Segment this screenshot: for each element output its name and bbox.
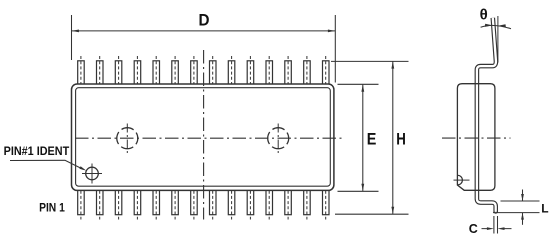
L extension lower bbox=[493, 212, 540, 214]
theta arc arrowhead left bbox=[485, 24, 493, 27]
body inner outline bbox=[76, 88, 331, 187]
side ident tick line bbox=[454, 179, 470, 181]
L arrow line upper bbox=[522, 190, 524, 201]
L arrowhead up bbox=[521, 213, 524, 220]
pin1 leader arrowhead bbox=[79, 166, 86, 170]
hole circle right centerline bbox=[277, 124, 279, 154]
L arrow line lower bbox=[522, 213, 524, 225]
hole circle left centerline bbox=[126, 124, 128, 154]
C arrowhead left bbox=[498, 227, 505, 230]
dimension arrowheads bbox=[72, 30, 395, 215]
E extension top bbox=[338, 83, 379, 85]
side lead inner whitening bbox=[477, 18, 496, 212]
E extension bottom bbox=[338, 190, 379, 192]
hole circle left bbox=[117, 128, 138, 149]
side horizontal centerline bbox=[442, 137, 511, 139]
L extension upper bbox=[501, 200, 540, 202]
E dimension line bbox=[362, 85, 364, 191]
svg-text:θ: θ bbox=[480, 7, 488, 24]
side body outline with chamfer bottom-left bbox=[457, 84, 495, 191]
svg-text:H: H bbox=[396, 129, 406, 148]
D dimension extension line left bbox=[71, 15, 73, 60]
pin1 ident circle bbox=[86, 167, 99, 180]
side pin1 ident semicircle bbox=[458, 175, 463, 185]
D dimension line bbox=[72, 30, 336, 32]
vertical body centerline bbox=[203, 50, 205, 220]
C arrow tails bbox=[482, 228, 512, 230]
pin1 ident cross bbox=[82, 164, 102, 184]
C extension lines bbox=[494, 216, 498, 234]
H arrow top bbox=[391, 61, 394, 68]
side lead outline (Z-bends), dark thick stroke bbox=[477, 18, 496, 212]
top pin centerlines bbox=[81, 56, 326, 94]
E arrow bottom bbox=[361, 184, 364, 191]
svg-text:L: L bbox=[541, 201, 548, 215]
L arrowhead down bbox=[521, 194, 524, 201]
H extension top bbox=[331, 60, 409, 62]
svg-text:PIN#1 IDENT: PIN#1 IDENT bbox=[4, 144, 70, 158]
hole circle right bbox=[268, 128, 289, 149]
top pins (14) bbox=[78, 61, 329, 85]
bottom pins (14) bbox=[78, 190, 329, 214]
H arrow bottom bbox=[391, 207, 394, 214]
E arrow top bbox=[361, 85, 364, 92]
svg-text:E: E bbox=[367, 129, 377, 148]
theta arc bbox=[481, 25, 511, 28]
svg-text:PIN 1: PIN 1 bbox=[39, 201, 65, 215]
theta reference vertical line bbox=[497, 16, 499, 63]
H extension bottom bbox=[335, 213, 409, 215]
pin1 leader line bbox=[10, 160, 84, 169]
bottom pin centerlines bbox=[81, 186, 326, 220]
horizontal body centerline bbox=[75, 137, 345, 139]
C arrowhead right bbox=[487, 227, 494, 230]
D dimension extension line right bbox=[334, 15, 336, 83]
H dimension line bbox=[392, 61, 394, 214]
lead bottom tip cap bbox=[494, 211, 497, 213]
svg-text:C: C bbox=[469, 222, 478, 236]
svg-text:D: D bbox=[199, 10, 210, 29]
theta arc arrowhead right bbox=[498, 24, 506, 27]
D arrow right bbox=[328, 30, 335, 33]
D arrow left bbox=[72, 30, 79, 33]
body outer outline bbox=[72, 84, 334, 190]
